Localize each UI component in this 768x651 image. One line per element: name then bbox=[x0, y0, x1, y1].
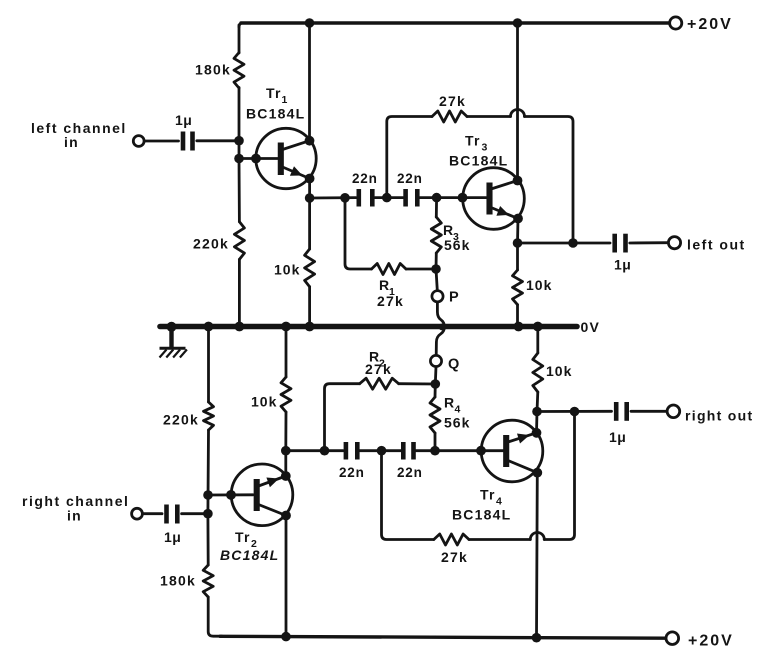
resistor 10k (top right) bbox=[513, 270, 523, 305]
junction 0V rail x=537 bbox=[533, 322, 543, 332]
terminal right out bbox=[667, 405, 680, 418]
wire +20V top rail bbox=[239, 23, 243, 27]
junction base wire at Tr2 circle edge bbox=[226, 490, 236, 500]
svg-text:10k: 10k bbox=[526, 277, 552, 293]
svg-text:1μ: 1μ bbox=[164, 529, 181, 545]
wire 0V rail down to 10k bottom-left bbox=[285, 327, 288, 377]
resistor R2 27k bbox=[360, 378, 399, 389]
junction Tr2 emitter node bbox=[281, 446, 291, 456]
terminal +20V top bbox=[670, 17, 682, 29]
svg-text:Tr: Tr bbox=[480, 487, 496, 503]
wire capacitor to input node bbox=[197, 139, 239, 142]
wire 22n to Tr3 base node bbox=[420, 196, 486, 199]
junction 0V rail P-Q crossing bbox=[439, 324, 446, 331]
wire P through 0V rail to Q bbox=[436, 302, 444, 356]
svg-text:56k: 56k bbox=[444, 415, 470, 431]
wire Tr2 collector to bottom rail bbox=[285, 516, 288, 637]
resistor R1 27k bbox=[372, 264, 407, 275]
wire capacitor to right out terminal bbox=[631, 410, 667, 413]
wire +20V bottom rail bbox=[220, 636, 666, 638]
wire top rail corner down to 180k bbox=[238, 25, 241, 53]
svg-text:10k: 10k bbox=[251, 394, 277, 410]
junction base node Tr1 bbox=[234, 154, 244, 164]
wire 0V rail bbox=[160, 324, 577, 330]
svg-text:22n: 22n bbox=[397, 171, 423, 186]
terminal +20V bottom bbox=[666, 632, 679, 645]
svg-text:right out: right out bbox=[685, 408, 753, 424]
wire Q to R2 junction bbox=[434, 367, 438, 384]
resistor R4 56k bbox=[430, 397, 440, 433]
junction bottom rail / Tr2 collector bbox=[281, 632, 291, 642]
junction 0V rail x=208 bbox=[204, 322, 214, 332]
wire 180k to input node bbox=[238, 88, 241, 159]
resistor 10k (bottom left) bbox=[281, 377, 291, 412]
svg-text:BC184L: BC184L bbox=[246, 106, 305, 122]
junction output row / feedback corner bottom bbox=[570, 407, 580, 417]
svg-text:10k: 10k bbox=[274, 262, 300, 278]
junction top rail / Tr1 collector bbox=[305, 18, 315, 28]
wire R4 from junction bbox=[434, 384, 437, 397]
terminal left channel in bbox=[133, 136, 144, 147]
svg-text:220k: 220k bbox=[193, 236, 229, 252]
wire capacitor to input node bbox=[182, 512, 208, 515]
resistor R3 56k bbox=[431, 217, 441, 253]
wire 10k to 0V rail bbox=[308, 287, 311, 326]
svg-text:180k: 180k bbox=[160, 573, 196, 589]
wire 0V rail down to 220k bottom bbox=[207, 327, 210, 402]
svg-text:0V: 0V bbox=[581, 319, 601, 335]
svg-text:22n: 22n bbox=[397, 465, 423, 480]
junction input node bottom bbox=[203, 509, 213, 519]
junction Tr3 circle edge bbox=[458, 193, 468, 203]
wire R2 left leg down bbox=[325, 384, 360, 451]
svg-text:Q: Q bbox=[448, 357, 459, 373]
junction left output node bbox=[513, 238, 523, 248]
wire R4 to 22n row bbox=[434, 433, 437, 451]
wire Tr3 emitter to output node bbox=[516, 219, 519, 244]
junction ground tap bbox=[167, 322, 177, 332]
svg-text:Tr: Tr bbox=[235, 529, 251, 545]
junction base wire at Tr1 circle edge bbox=[251, 154, 261, 164]
capacitor 22n (top second) bbox=[406, 189, 418, 207]
junction top rail / Tr3 collector line bbox=[513, 18, 523, 28]
junction R1 R3 P bbox=[431, 264, 441, 274]
wire emitter node to 22n caps bbox=[310, 196, 356, 199]
wire 22n to Tr4 base node bbox=[416, 449, 504, 452]
wire Tr1 collector to top rail bbox=[308, 23, 311, 141]
wire 180k corner to bottom rail bbox=[208, 597, 222, 636]
wire input terminal to capacitor bbox=[143, 512, 162, 515]
svg-text:1: 1 bbox=[282, 94, 288, 106]
resistor 27k (top feedback) bbox=[432, 111, 467, 122]
svg-text:27k: 27k bbox=[439, 93, 466, 109]
svg-text:in: in bbox=[64, 134, 79, 150]
junction between 22n caps bbox=[382, 193, 392, 203]
wire base node to 220k bbox=[238, 159, 241, 222]
svg-text:BC184L: BC184L bbox=[220, 547, 279, 563]
svg-text:22n: 22n bbox=[339, 465, 365, 480]
svg-text:1μ: 1μ bbox=[614, 257, 631, 273]
svg-text:+20V: +20V bbox=[687, 16, 733, 33]
wire hop to right corner down bbox=[525, 117, 574, 244]
wire input terminal to capacitor bbox=[144, 140, 178, 143]
wire Tr1 emitter down bbox=[308, 179, 311, 199]
wire 220k to base node bbox=[206, 430, 209, 514]
capacitor 22n (bottom second) bbox=[403, 442, 413, 460]
transistor Q Tr2 BC184L bbox=[231, 464, 293, 526]
wire 0V rail down to 10k bottom-right bbox=[536, 327, 539, 353]
wire Tr4 emitter up to output node bbox=[535, 412, 538, 433]
wire junction to node P bbox=[436, 269, 437, 291]
wire 10k to emitter node bbox=[284, 412, 287, 451]
node P bbox=[432, 291, 443, 302]
wire Tr4 collector to bottom rail bbox=[535, 473, 539, 638]
wire input node to 180k bottom bbox=[206, 514, 209, 565]
wire 27k to hop bottom bbox=[469, 538, 530, 541]
terminal left out bbox=[668, 237, 680, 249]
resistor 10k (top left) bbox=[305, 249, 315, 287]
junction output row / feedback corner bbox=[568, 238, 578, 248]
wire hop over collector line bbox=[511, 110, 525, 117]
wire emitter node to 10k bbox=[308, 198, 311, 249]
junction 27k tap bottom bbox=[377, 446, 387, 456]
svg-text:1μ: 1μ bbox=[609, 429, 626, 445]
wire R2 right leg bbox=[399, 382, 436, 385]
wire 27k tap down to resistor bbox=[382, 451, 434, 540]
wire 220k to 0V rail bbox=[238, 259, 241, 326]
capacitor 22n (bottom first) bbox=[346, 442, 357, 460]
resistor 10k (bottom right) bbox=[533, 353, 543, 392]
junction 0V rail x=239 bbox=[235, 322, 245, 332]
svg-text:left channel: left channel bbox=[31, 120, 127, 136]
svg-text:27k: 27k bbox=[365, 361, 392, 377]
transistor Q Tr4 BC184L bbox=[481, 420, 543, 482]
wire output node to 10k bbox=[516, 243, 519, 270]
junction Tr4 base node bbox=[430, 446, 440, 456]
wire between-caps node up to 27k bbox=[387, 117, 432, 198]
svg-text:Tr: Tr bbox=[465, 133, 481, 149]
svg-text:1μ: 1μ bbox=[175, 112, 192, 128]
wire 27k to hop bbox=[467, 115, 511, 118]
junction 0V rail x=517 bbox=[514, 322, 524, 332]
junction bottom rail / Tr4 collector bbox=[532, 633, 542, 643]
svg-text:22n: 22n bbox=[352, 171, 378, 186]
svg-text:Tr: Tr bbox=[266, 85, 282, 101]
wire between 22n caps bbox=[375, 196, 403, 199]
resistor 27k (bottom feedback) bbox=[434, 534, 469, 545]
wire R1 to P junction bbox=[406, 268, 436, 271]
capacitor 22n (top first) bbox=[359, 189, 373, 207]
junction input node bbox=[234, 136, 244, 146]
wire base node to Tr2 base bbox=[208, 493, 253, 496]
svg-text:56k: 56k bbox=[444, 237, 470, 253]
capacitor 1u (left out) bbox=[615, 234, 626, 253]
wire output node to capacitor right bbox=[537, 410, 612, 413]
wire hop to right corner up bbox=[544, 412, 574, 540]
wire Tr2 emitter up to 22n row bbox=[284, 451, 287, 476]
wire Tr3 base node down to R3 bbox=[435, 198, 438, 217]
wire hop over collector line bottom bbox=[530, 533, 544, 540]
wire output node to capacitor bbox=[518, 242, 611, 245]
svg-text:27k: 27k bbox=[441, 549, 468, 565]
terminal right channel in bbox=[132, 508, 143, 519]
wire R3 to junction bbox=[435, 253, 438, 269]
svg-text:BC184L: BC184L bbox=[449, 153, 508, 169]
capacitor 1u (left in) bbox=[183, 132, 193, 151]
junction right output node bbox=[532, 407, 542, 417]
resistor 220k (left, bottom) bbox=[204, 402, 214, 430]
capacitor 1u (right in) bbox=[167, 505, 178, 524]
transistor Q Tr3 BC184L bbox=[463, 168, 525, 230]
svg-text:BC184L: BC184L bbox=[452, 507, 511, 523]
svg-text:in: in bbox=[67, 508, 82, 524]
junction 0V rail x=309 bbox=[305, 322, 315, 332]
resistor 180k (left, top) bbox=[234, 53, 244, 89]
svg-text:left out: left out bbox=[687, 237, 746, 253]
wire between 22n caps bottom bbox=[360, 449, 401, 452]
junction Tr3 base node bbox=[432, 193, 442, 203]
svg-text:220k: 220k bbox=[163, 412, 199, 428]
svg-text:27k: 27k bbox=[377, 293, 404, 309]
wire capacitor to left out terminal bbox=[630, 241, 669, 244]
junction 0V rail x=286 bbox=[281, 322, 291, 332]
junction Tr1 emitter node bbox=[305, 193, 315, 203]
wire R1 left leg bbox=[345, 198, 372, 269]
svg-text:180k: 180k bbox=[195, 62, 231, 78]
wire base node to Tr1 base bbox=[239, 157, 278, 160]
resistor 180k (left, bottom) bbox=[203, 565, 213, 597]
capacitor 1u (right out) bbox=[616, 402, 627, 421]
junction base node Tr2 bbox=[203, 490, 213, 500]
svg-text:P: P bbox=[449, 290, 459, 306]
junction Tr4 circle edge bbox=[476, 446, 486, 456]
wire 10k to output node bbox=[536, 392, 540, 412]
transistor Q Tr1 BC184L bbox=[256, 128, 316, 188]
svg-text:+20V: +20V bbox=[688, 633, 734, 650]
junction R1 tap bbox=[340, 193, 350, 203]
resistor 220k (left, top) bbox=[234, 222, 244, 260]
node Q bbox=[430, 355, 441, 366]
junction R2 R4 bbox=[431, 379, 441, 389]
ground bbox=[160, 327, 187, 358]
junction R2 leg tap bbox=[320, 446, 330, 456]
wire emitter node to 22n caps bbox=[286, 449, 343, 452]
svg-text:10k: 10k bbox=[546, 363, 572, 379]
wire Tr3 collector to top rail bbox=[516, 23, 519, 181]
wire 10k to 0V rail bbox=[516, 305, 519, 326]
